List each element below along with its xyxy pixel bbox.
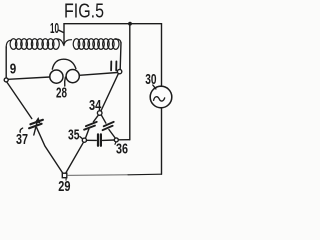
svg-text:34: 34 xyxy=(89,98,101,114)
svg-text:36: 36 xyxy=(116,142,128,158)
node 9 terminal xyxy=(4,78,8,82)
wire node 9 to cap 37 xyxy=(7,82,32,119)
capacitor C35-36 plates xyxy=(98,134,101,145)
svg-text:10: 10 xyxy=(50,21,59,37)
headphones 28 cord xyxy=(64,77,67,86)
wire right rail top xyxy=(161,24,163,86)
inductor L1 left winding xyxy=(6,39,64,50)
node 29 terminal xyxy=(62,173,67,178)
headphones 28 earpiece left xyxy=(50,70,63,83)
wire cap 37 to node 29 xyxy=(37,128,63,174)
node 36 terminal xyxy=(114,138,118,142)
headphones 28 earpiece right xyxy=(66,70,79,83)
node junction dot on top bus xyxy=(128,22,132,26)
wire pointer to node 36 xyxy=(114,142,117,144)
node 35 terminal xyxy=(82,138,86,142)
wire node 9 to headphones xyxy=(8,77,50,79)
svg-text:9: 9 xyxy=(10,62,16,78)
node 34 terminal xyxy=(97,111,102,116)
wire top bus from center tap to source xyxy=(64,23,162,25)
wire pointer from 10 xyxy=(59,30,63,32)
svg-text:35: 35 xyxy=(68,128,80,144)
source 30 sine symbol xyxy=(154,97,165,101)
wire left lead down to node 9 xyxy=(5,47,7,78)
wire node 36 to right riser xyxy=(118,139,130,141)
node 11 terminal xyxy=(117,69,121,73)
capacitor C37 plates xyxy=(29,120,43,129)
label 11 xyxy=(111,61,116,70)
wire triangle left side lower segment xyxy=(86,129,89,138)
svg-text:29: 29 xyxy=(58,179,70,194)
wire triangle right side lower segment xyxy=(109,130,115,139)
wire triangle right side upper segment xyxy=(101,115,106,123)
wire pointer to node 29 xyxy=(65,178,67,180)
headphones 28 headband arc xyxy=(52,59,76,69)
wire right lead down to node 11 xyxy=(119,43,122,70)
source 30 AC generator xyxy=(150,86,172,108)
wire node 29 to node 35 xyxy=(66,142,84,173)
wire center tap stub xyxy=(63,24,65,45)
wire right rail bottom xyxy=(161,108,163,174)
wire triangle left side upper segment xyxy=(93,115,98,122)
svg-text:FIG.5: FIG.5 xyxy=(64,0,104,22)
svg-text:28: 28 xyxy=(56,86,67,102)
wire right riser up to junction xyxy=(129,24,131,140)
wire triangle bottom right segment xyxy=(103,139,115,141)
wire bottom bus node 29 to right rail xyxy=(67,174,128,177)
capacitor C37 trimmer arrow xyxy=(34,120,38,136)
wire pointer arc at 37 xyxy=(20,128,23,132)
wire node 11 to node 34 xyxy=(101,74,119,111)
wire pointer from 30 xyxy=(153,85,156,89)
inductor L2 right winding xyxy=(64,39,121,50)
wire headphones to node 11 xyxy=(79,73,117,76)
capacitor C34-35 plates xyxy=(84,122,97,130)
wire triangle bottom left segment xyxy=(87,139,97,141)
wire pointer from 35 xyxy=(80,137,83,139)
capacitor C34-36 plates xyxy=(103,122,114,130)
svg-text:37: 37 xyxy=(16,132,28,148)
svg-text:30: 30 xyxy=(145,72,156,88)
